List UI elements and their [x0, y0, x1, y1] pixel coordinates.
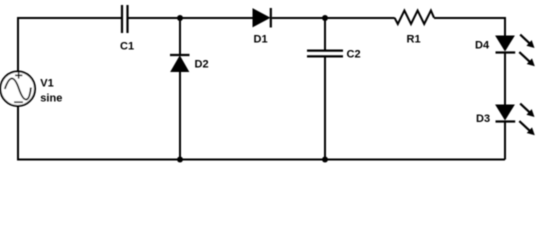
wire node C to bottom-left corner	[18, 159, 180, 161]
wire bottom-right corner to node D	[325, 159, 505, 161]
wire V1 up to top-left corner	[17, 17, 19, 72]
svg-text:V1: V1	[40, 77, 53, 89]
wire bottom-left corner up to V1	[17, 106, 19, 161]
wire D2 down to node C	[179, 72, 181, 160]
wire top-left corner to C1	[17, 17, 121, 19]
svg-text:sine: sine	[40, 92, 62, 104]
diode D2	[170, 55, 190, 72]
wire D4 to D3	[504, 54, 506, 106]
svg-text:C2: C2	[347, 49, 361, 61]
wire D3 to bottom-right corner	[504, 123, 506, 160]
wire node D to node C	[180, 159, 325, 161]
node C junction (bottom of D2)	[177, 157, 183, 163]
svg-text:D4: D4	[475, 40, 490, 52]
svg-text:C1: C1	[120, 41, 134, 53]
capacitor C1	[122, 5, 128, 33]
capacitor C2	[307, 51, 343, 57]
voltage source V1	[0, 71, 35, 106]
LED D3	[496, 104, 535, 136]
wire node B down to C2	[324, 18, 326, 50]
wire C1 to node A	[129, 17, 181, 19]
wire node A down to D2	[179, 18, 181, 54]
node A junction (top of D2)	[177, 15, 183, 21]
node B junction (top of C2)	[322, 15, 328, 21]
diode D1	[253, 8, 271, 28]
svg-text:D3: D3	[476, 113, 490, 125]
LED D4	[496, 35, 535, 67]
resistor R1	[395, 11, 435, 25]
wire top-right corner down to D4	[504, 17, 506, 36]
wire node B to R1	[325, 17, 395, 19]
svg-text:D2: D2	[195, 59, 209, 71]
wire R1 to top-right corner	[434, 17, 505, 19]
node D junction (bottom of C2)	[322, 157, 328, 163]
wire node A to D1	[180, 17, 253, 19]
svg-text:R1: R1	[407, 34, 421, 46]
wire C2 down to node D	[324, 57, 326, 160]
svg-text:D1: D1	[254, 34, 268, 46]
wire D1 to node B	[272, 17, 325, 19]
